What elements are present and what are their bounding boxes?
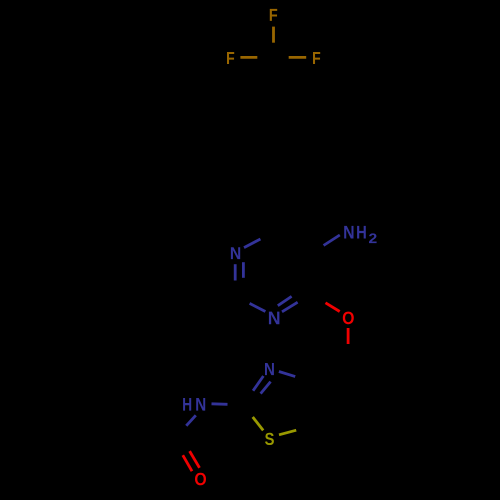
bond C5-N(H2) blue half [324, 235, 340, 246]
bond C7-F2 gold half [240, 56, 257, 59]
atom F1 (top fluorine) [270, 9, 277, 21]
bond C17=O18 right line red half [190, 451, 200, 468]
benzene ring (black, invisible on bg) [236, 101, 310, 187]
bond S15-C14 black half [296, 426, 313, 431]
bond N12=C13 inner blue half [261, 382, 271, 394]
bond C13-S15 olive half [253, 417, 264, 430]
atom N8 amine subscript 2 [369, 233, 377, 243]
bond C7-F1 black half [272, 43, 275, 58]
bond C17-C19 acetyl methyl (black) [134, 435, 177, 438]
bond C2-N3 blue half [250, 303, 266, 311]
bond N12-C11 blue half [279, 372, 295, 377]
bond C2-N3 black half [236, 296, 250, 303]
bond C5-C6 (black) [277, 230, 309, 255]
bond O9-C10 red half [347, 328, 350, 344]
bond N12-C11 black half [295, 377, 311, 382]
bond C5-N(H2) black half [309, 246, 324, 256]
atom N1 (pyrimidine) [231, 247, 240, 259]
bond S15-C14 olive half [279, 430, 296, 435]
bond C7-F3 gold half [289, 56, 307, 59]
bond N12=C13 main black half [243, 391, 253, 406]
bond B4-C6 (benzene to pyrimidine, black) [274, 187, 278, 230]
bond C4-O9 black half [312, 295, 326, 303]
bond N3=C4 inner blue half [278, 296, 292, 305]
atom N12 (thiazole nitrogen) [265, 363, 274, 375]
bond O9-C10 black half [347, 344, 350, 360]
bond N1=C2 main black half [234, 281, 237, 297]
atom N8 amine NH2 label [344, 226, 353, 239]
bond N1=C2 main blue half [234, 264, 237, 280]
atom N16 amide HN label [183, 398, 191, 411]
bond C17=O18 left line black half [174, 439, 183, 455]
bond C13-S15 black half [243, 406, 253, 417]
bond N1=C2 inner blue half [242, 262, 245, 278]
atom S15 (thiazole sulfur) [265, 433, 274, 445]
bond N12=C13 main blue half [253, 376, 263, 391]
atom O9 (ether oxygen) [343, 312, 354, 325]
bond C11=C14 thiazole double (black) [311, 382, 314, 426]
bond C4-O9 red half [326, 303, 340, 312]
bond C7-F3 black half [274, 56, 289, 59]
bond C7-F2 black half [257, 56, 273, 59]
bond C7-F1 gold half [272, 27, 275, 43]
atom N3 (pyrimidine) [269, 312, 280, 325]
bond C17=O18 right line black half [180, 435, 189, 451]
bond C13-N16 blue half [212, 402, 228, 405]
bond C13-N16 black half [228, 404, 243, 405]
atom F2 (left fluorine) [227, 52, 234, 64]
bond N3=C4 main black half [298, 295, 312, 303]
bond C10-C11 (CH2 to thiazole C4, black) [311, 360, 348, 382]
bond N16-C17 blue half [186, 415, 196, 426]
atom O18 (carbonyl oxygen) [195, 473, 206, 486]
bond C7-B1 (CF3 C to benzene top, black) [272, 58, 275, 101]
bond N3=C4 main blue half [282, 302, 298, 312]
bond N1-C6 black half [261, 230, 278, 239]
bond N1-C6 blue half [244, 239, 261, 248]
bond C4-C5 (black) [309, 256, 312, 295]
bond N16-C17 black half [177, 426, 187, 437]
atom F3 (right fluorine) [313, 52, 320, 64]
bond C17=O18 left line red half [183, 455, 192, 471]
